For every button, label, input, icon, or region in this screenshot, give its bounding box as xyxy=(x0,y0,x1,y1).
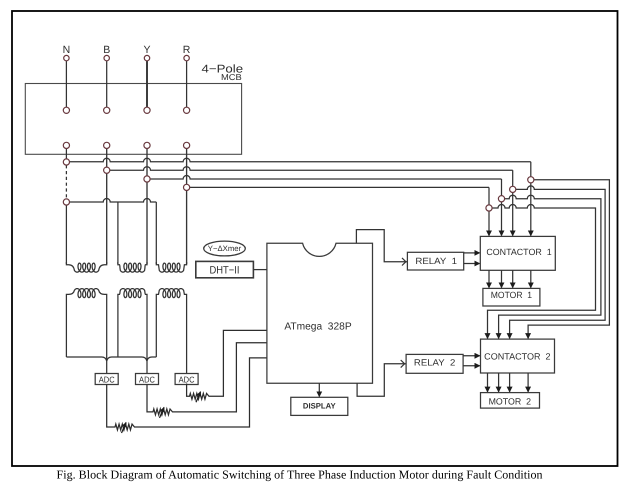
ADC 3 box xyxy=(175,374,198,385)
node branch Y xyxy=(498,196,504,202)
MCB upper contact N xyxy=(63,107,69,113)
node bus B xyxy=(104,167,110,173)
DISPLAY box xyxy=(291,397,348,415)
wire primary loop2 left xyxy=(117,202,119,264)
wire RELAY1 to CONTACTOR1 upper xyxy=(464,252,480,254)
ADC 2 box xyxy=(136,374,159,385)
MCB lower contact N xyxy=(63,142,69,148)
wire ATmega to RELAY 1 xyxy=(356,230,407,262)
svg-text:ADC: ADC xyxy=(179,374,195,384)
svg-text:RELAY 1: RELAY 1 xyxy=(415,256,457,266)
potentiometer from ADC2 xyxy=(147,343,267,415)
svg-text:CONTACTOR 1: CONTACTOR 1 xyxy=(486,247,551,257)
MCB lower contact B xyxy=(104,142,110,148)
wire ATmega to DISPLAY xyxy=(318,383,320,396)
wire neutral rail primary xyxy=(66,199,156,203)
label 4-Pole MCB xyxy=(202,64,244,82)
secondary coil 3 xyxy=(156,289,186,298)
wire Y phase down to primary coil 2 xyxy=(146,149,148,264)
svg-text:ATmega 328P: ATmega 328P xyxy=(284,321,351,332)
CONTACTOR 1 box xyxy=(480,236,555,270)
wire RELAY2 to CONTACTOR2 upper xyxy=(463,355,480,357)
potentiometer arrow ADC3 xyxy=(196,392,201,402)
wire CONTACTOR2 to MOTOR2 a xyxy=(487,373,489,392)
potentiometer arrow ADC2 xyxy=(160,408,165,418)
wire CONTACTOR2 to MOTOR2 c xyxy=(509,373,511,392)
potentiometer from ADC1 xyxy=(107,358,267,430)
label Y xyxy=(143,44,150,56)
wire wrap branch B xyxy=(510,186,605,338)
wire N MCB lower contact down xyxy=(65,149,67,159)
wire R phase down to primary coil 3 xyxy=(186,149,188,264)
MOTOR 1 box xyxy=(483,288,540,306)
wire drop B to CONTACTOR1 xyxy=(512,170,514,235)
potentiometer arrow ADC1 xyxy=(122,423,127,433)
ADC 1 box xyxy=(95,374,118,385)
node branch N xyxy=(528,177,534,183)
caption xyxy=(57,468,543,482)
node bus Y xyxy=(144,176,150,182)
terminal circle N xyxy=(64,55,69,60)
MCB upper contact R xyxy=(184,107,190,113)
wire RELAY1 to CONTACTOR1 lower xyxy=(464,263,480,265)
wire N terminal to MCB contact xyxy=(65,61,67,107)
label N xyxy=(63,44,71,56)
node branch B xyxy=(510,186,516,192)
wire CONTACTOR1 to MOTOR1 a xyxy=(488,270,490,287)
svg-text:ADC: ADC xyxy=(99,374,115,384)
wire B terminal to MCB contact xyxy=(106,61,108,107)
wire dashed neutral link xyxy=(65,165,67,199)
primary coil 1 xyxy=(66,262,106,272)
svg-text:DISPLAY: DISPLAY xyxy=(303,401,337,410)
MCB lower contact R xyxy=(184,142,190,148)
wire drop Y to CONTACTOR1 xyxy=(501,179,503,236)
label B xyxy=(103,44,110,56)
MOTOR 2 box xyxy=(481,393,540,409)
node bus N xyxy=(63,159,69,165)
CONTACTOR 2 box xyxy=(481,339,555,373)
node neutral lower xyxy=(63,199,69,205)
svg-text:DHT−II: DHT−II xyxy=(210,264,240,276)
MCB upper contact Y xyxy=(144,107,150,113)
wire wrap branch Y xyxy=(499,195,601,338)
wire ADC1 feed xyxy=(106,297,108,374)
svg-text:B: B xyxy=(103,44,110,56)
terminal circle R xyxy=(184,55,189,60)
wire CONTACTOR1 to MOTOR1 c xyxy=(512,270,514,287)
op-amp U1 ATmega 328P xyxy=(267,243,373,383)
svg-text:CONTACTOR 2: CONTACTOR 2 xyxy=(484,351,550,361)
wire secondary loop2 left xyxy=(117,297,119,357)
wire primary loop3 left xyxy=(155,202,157,264)
svg-text:Fig. Block Diagram of Automati: Fig. Block Diagram of Automatic Switchin… xyxy=(57,468,543,482)
MCB lower contact Y xyxy=(144,142,150,148)
svg-text:ADC: ADC xyxy=(139,374,155,384)
wire RELAY2 to CONTACTOR2 lower xyxy=(463,365,480,367)
label R xyxy=(183,44,191,56)
RELAY 1 box xyxy=(407,252,463,270)
secondary coil 1 xyxy=(66,289,106,298)
potentiometer from ADC3 xyxy=(187,330,267,399)
primary coil 2 xyxy=(118,262,147,272)
wire secondary loop1 left xyxy=(65,297,67,357)
primary coil 3 xyxy=(156,262,186,272)
DHT-II box xyxy=(196,261,254,277)
svg-text:N: N xyxy=(63,44,71,56)
secondary coil 2 xyxy=(118,289,147,298)
MCB box xyxy=(25,84,241,155)
wire CONTACTOR2 to MOTOR2 b xyxy=(498,373,500,392)
wire DHT-II to ATmega xyxy=(253,269,267,271)
RELAY 2 box xyxy=(406,354,463,373)
MCB upper contact B xyxy=(104,107,110,113)
svg-text:Y−ΔXmer: Y−ΔXmer xyxy=(208,244,242,253)
terminal circle Y xyxy=(144,55,149,60)
wire CONTACTOR1 to MOTOR1 d xyxy=(530,270,532,287)
wire drop R to CONTACTOR1 xyxy=(488,187,490,235)
svg-text:RELAY 2: RELAY 2 xyxy=(414,358,455,368)
wire R terminal to MCB contact xyxy=(186,61,188,107)
wire CONTACTOR1 to MOTOR1 b xyxy=(501,270,503,287)
svg-text:MOTOR 1: MOTOR 1 xyxy=(491,290,532,300)
node branch R xyxy=(486,205,492,211)
wire wrap branch N xyxy=(528,180,609,338)
wire bus R xyxy=(187,186,489,188)
Y-delta transformer label ellipse xyxy=(204,241,246,256)
wire secondary loop3 left xyxy=(155,297,157,357)
wire bus N xyxy=(66,158,530,162)
wire bus Y xyxy=(147,176,502,179)
svg-text:MOTOR 2: MOTOR 2 xyxy=(489,396,531,406)
svg-text:MCB: MCB xyxy=(221,72,242,82)
svg-text:R: R xyxy=(183,44,191,56)
wire drop N to CONTACTOR1 xyxy=(530,162,532,236)
wire Y terminal to MCB contact xyxy=(146,61,148,107)
wire primary loop1 left xyxy=(65,205,67,264)
wire bus B xyxy=(107,167,513,170)
wire wrap branch R xyxy=(488,205,596,339)
svg-text:Y: Y xyxy=(143,44,150,56)
wire ADC2 feed xyxy=(146,297,148,374)
wire B phase down to primary coil 1 xyxy=(106,149,108,264)
wire CONTACTOR2 to MOTOR2 d xyxy=(527,373,529,392)
terminal circle B xyxy=(104,55,109,60)
wire ADC3 feed xyxy=(186,297,188,374)
wire secondary bottom rail xyxy=(66,357,156,361)
wire ATmega to RELAY 2 xyxy=(357,364,406,396)
node bus R xyxy=(184,184,190,190)
